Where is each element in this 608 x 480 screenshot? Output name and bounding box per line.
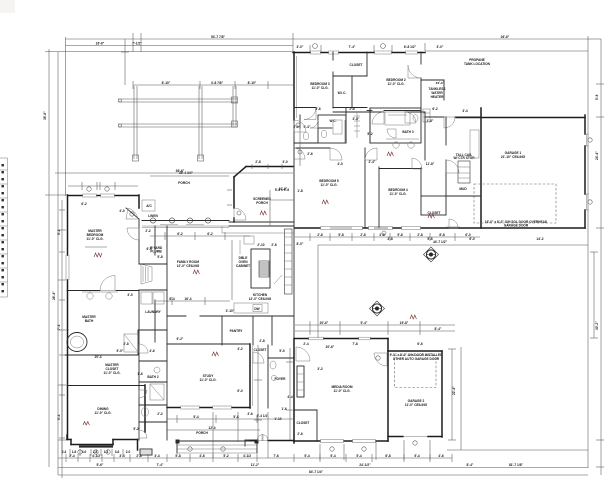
master suite NE closets: [130, 200, 167, 316]
svg-text:84'-7 1/4": 84'-7 1/4": [309, 470, 323, 474]
site boundary right: [587, 51, 589, 468]
svg-text:2'-8: 2'-8: [360, 233, 366, 237]
svg-text:4'-6: 4'-6: [438, 454, 444, 458]
dense left bottom micro dims: [62, 449, 131, 456]
dining room: [95, 407, 112, 415]
front porch steps: [176, 431, 259, 453]
svg-text:14'-2: 14'-2: [536, 237, 543, 241]
svg-text:2'-8: 2'-8: [123, 342, 129, 346]
svg-text:12'-0" CEILING: 12'-0" CEILING: [249, 297, 272, 301]
master wing north wall with windows: [68, 194, 138, 197]
trellis beam vertical west: [133, 86, 139, 161]
svg-text:5'-4": 5'-4": [361, 321, 368, 325]
svg-text:5'-2: 5'-2: [367, 132, 373, 136]
svg-text:10'-2": 10'-2": [279, 187, 288, 191]
svg-text:2'-8: 2'-8: [349, 107, 355, 111]
svg-text:3'-6: 3'-6: [247, 412, 253, 416]
svg-text:xx'-x": xx'-x": [436, 81, 445, 85]
svg-text:2'-4": 2'-4": [369, 160, 376, 164]
hall vertical dim ticks center: [286, 348, 294, 440]
svg-text:11'-0" CLG.: 11'-0" CLG.: [321, 183, 338, 187]
svg-text:6'-2: 6'-2: [207, 232, 213, 236]
svg-text:4'-0: 4'-0: [337, 162, 343, 166]
north yard vertical dim: [121, 39, 129, 85]
hall doors arcs middle band: [330, 148, 377, 160]
svg-text:16'-4: 16'-4: [184, 297, 191, 301]
svg-text:8'-10": 8'-10": [248, 81, 257, 85]
svg-text:3'-6: 3'-6: [315, 107, 321, 111]
svg-text:6'-2: 6'-2: [177, 232, 183, 236]
hall strip east of master wing: [139, 290, 167, 440]
svg-text:8'-4": 8'-4": [467, 463, 474, 467]
svg-text:4'-1/2: 4'-1/2: [243, 454, 251, 458]
svg-text:5'-0: 5'-0: [279, 349, 285, 353]
svg-text:36'-6": 36'-6": [176, 169, 185, 173]
svg-text:2'-4 1/2: 2'-4 1/2: [257, 414, 268, 418]
dimension line left inner lower: [61, 384, 63, 478]
hall door arcs left wing: [126, 208, 139, 240]
svg-text:36'-8": 36'-8": [43, 111, 47, 120]
svg-text:TANK LOCATION: TANK LOCATION: [464, 62, 491, 66]
svg-text:2'-2: 2'-2: [157, 412, 163, 416]
svg-text:7'-6: 7'-6: [273, 454, 279, 458]
svg-text:2'-4: 2'-4: [69, 454, 75, 458]
svg-text:11'-0" CEILING: 11'-0" CEILING: [405, 403, 428, 407]
bedroom 2: [367, 52, 421, 111]
svg-text:2'-10: 2'-10: [257, 243, 264, 247]
svg-text:3'-8": 3'-8": [353, 117, 360, 121]
screened porch screen ticks: [227, 160, 288, 205]
svg-text:9'-2": 9'-2": [177, 337, 184, 341]
porch area dim row: [150, 232, 250, 240]
rear wall of house long: [295, 227, 585, 235]
svg-text:BATH 2: BATH 2: [147, 375, 159, 379]
master bedroom: [85, 229, 107, 247]
dimension band south of rear wall: [295, 233, 480, 241]
bedroom 5: [296, 148, 365, 227]
svg-text:3'-4: 3'-4: [462, 109, 468, 113]
svg-text:2'-8: 2'-8: [255, 160, 261, 164]
svg-text:4'-6: 4'-6: [199, 454, 205, 458]
north wing hall arcs: [294, 112, 416, 132]
svg-text:2'-2: 2'-2: [145, 229, 151, 233]
bedroom 2 door arc: [408, 65, 421, 78]
svg-text:11'-0" CLG.: 11'-0" CLG.: [95, 411, 112, 415]
rear door arc mud hall: [446, 219, 460, 228]
powder bath center: [245, 348, 294, 446]
garage1 door swing marks: [586, 134, 592, 210]
svg-text:7'-6: 7'-6: [57, 324, 61, 330]
svg-text:PANTRY: PANTRY: [230, 329, 244, 333]
center hall walls: [142, 120, 294, 340]
svg-text:CLOSET: CLOSET: [297, 421, 310, 425]
svg-text:8'-4: 8'-4: [169, 297, 175, 301]
svg-text:BATH: BATH: [85, 319, 94, 323]
svg-text:2'-8: 2'-8: [136, 454, 142, 458]
media equipment cabinet: [297, 366, 304, 397]
stairs kitchen west: [251, 243, 277, 288]
svg-text:2-0: 2-0: [126, 450, 131, 454]
compass diamond 1: [424, 247, 439, 262]
garage1 room label: [501, 151, 526, 159]
media door arc east: [374, 353, 387, 366]
garage1 north wall: [456, 117, 585, 119]
kitchen: [249, 293, 272, 301]
svg-text:BATH 3: BATH 3: [402, 130, 414, 134]
garage 2 attic dashed: [390, 353, 444, 388]
svg-text:6'-8: 6'-8: [385, 454, 391, 458]
master suite south wall: [65, 330, 138, 355]
svg-text:7'-1/2": 7'-1/2": [132, 42, 142, 46]
svg-text:DW: DW: [254, 307, 259, 311]
svg-text:1'-6: 1'-6: [137, 372, 143, 376]
svg-text:6'-4: 6'-4: [57, 414, 61, 420]
bottom window bubbles: [78, 447, 366, 454]
svg-text:3'-0: 3'-0: [282, 160, 288, 164]
svg-text:6'-0: 6'-0: [237, 389, 243, 393]
svg-text:3'-0": 3'-0": [297, 45, 304, 49]
svg-text:5'-4: 5'-4: [193, 415, 199, 419]
dimension line left outer: [43, 49, 68, 475]
svg-text:10'-4: 10'-4: [94, 355, 101, 359]
svg-text:2'-8: 2'-8: [317, 233, 323, 237]
propane tank note: [464, 58, 491, 66]
svg-text:30'-2": 30'-2": [595, 321, 599, 330]
linen shelves: [423, 109, 430, 122]
closet between bedrooms: [333, 52, 367, 76]
media room walls: [294, 337, 388, 443]
svg-text:81'-7 1/8": 81'-7 1/8": [509, 463, 523, 467]
window squiggle marks: [83, 152, 434, 425]
window dimension ticks above north wall: [297, 44, 444, 52]
svg-text:8'-0": 8'-0": [297, 242, 304, 246]
svg-text:5'-8: 5'-8: [175, 454, 181, 458]
dining side steps: [140, 449, 152, 455]
svg-text:11'-0" CLG.: 11'-0" CLG.: [312, 86, 329, 90]
page corner tint: [0, 0, 15, 13]
svg-text:MUD: MUD: [459, 187, 467, 191]
mud hall by garage1: [446, 117, 481, 196]
garage1 attic storage dashed: [474, 184, 556, 223]
bottom left vertical dim stubs: [213, 412, 430, 460]
dimension line right of garage: [590, 252, 598, 338]
utility hall to garage: [425, 112, 481, 160]
fireplace family room: [141, 264, 152, 284]
svg-text:7'-8: 7'-8: [352, 342, 358, 346]
svg-text:2'-8: 2'-8: [417, 233, 423, 237]
double oven cabinet note: [236, 256, 250, 268]
svg-text:2'-8: 2'-8: [259, 339, 265, 343]
svg-text:4'-1/2: 4'-1/2: [92, 454, 100, 458]
bath 2 north wing: [294, 115, 346, 159]
svg-text:CLOSET: CLOSET: [254, 348, 267, 352]
dimension right of garage2: [448, 349, 456, 440]
entry foyer: [250, 345, 294, 441]
master wing dim ticks above: [55, 169, 293, 191]
svg-text:HEATER: HEATER: [431, 95, 445, 99]
svg-text:5'-8: 5'-8: [338, 233, 344, 237]
svg-text:3'-4: 3'-4: [154, 454, 160, 458]
svg-text:5'-6: 5'-6: [427, 237, 433, 241]
svg-text:3'-8: 3'-8: [387, 237, 393, 241]
pantry area walls: [167, 316, 294, 345]
svg-text:LAUNDRY: LAUNDRY: [145, 310, 161, 314]
svg-text:3'-0: 3'-0: [127, 293, 133, 297]
svg-text:21'-10" CEILING: 21'-10" CEILING: [501, 155, 526, 159]
media room south wall with windows: [294, 437, 388, 442]
trellis beam horizontal lower: [118, 124, 237, 127]
family room north windows: [160, 224, 204, 226]
dimension line bottom middle: [58, 463, 588, 468]
dimension band above media room: [295, 321, 455, 335]
dimension line right outer: [588, 39, 604, 475]
svg-text:W.I.C.: W.I.C.: [338, 91, 347, 95]
north wing exterior north wall with windows: [293, 51, 425, 54]
bedroom 3 door arc: [304, 108, 316, 120]
svg-text:5'-6": 5'-6": [97, 463, 104, 467]
svg-text:11'-2": 11'-2": [251, 463, 260, 467]
svg-text:2'-6: 2'-6: [297, 432, 303, 436]
svg-text:6'-2: 6'-2: [432, 107, 438, 111]
svg-text:PLUMB: PLUMB: [150, 250, 162, 254]
svg-text:16'-6": 16'-6": [96, 42, 105, 46]
screened porch: [229, 167, 294, 223]
svg-text:CABINET: CABINET: [236, 264, 250, 268]
svg-text:5'-4: 5'-4: [330, 454, 336, 458]
bedroom 4 door arc: [412, 158, 422, 169]
master closet: [67, 363, 145, 386]
wic north wing: [333, 76, 367, 108]
dimension line top overall: [66, 33, 589, 196]
study: [167, 344, 253, 408]
svg-text:6'-0: 6'-0: [469, 237, 475, 241]
backyard dimension line top: [318, 240, 588, 338]
site boundary bottom: [58, 470, 588, 475]
svg-text:4'-6: 4'-6: [149, 349, 155, 353]
wic with rod: [346, 108, 370, 143]
svg-text:12'-0" CEILING: 12'-0" CEILING: [177, 264, 200, 268]
svg-text:44'-7 1/2": 44'-7 1/2": [433, 240, 447, 244]
svg-text:5'-8: 5'-8: [397, 233, 403, 237]
svg-text:9'-8: 9'-8: [595, 94, 599, 100]
svg-text:19'-8": 19'-8": [400, 321, 409, 325]
interior dimension micro texts scattered: [81, 107, 543, 436]
svg-text:2'-6: 2'-6: [307, 152, 313, 156]
master bath: [67, 276, 139, 353]
svg-text:8'-8: 8'-8: [439, 233, 445, 237]
svg-text:24'-1/2": 24'-1/2": [359, 463, 371, 467]
tall cabinet utility: [453, 153, 475, 183]
kitchen counters: [222, 226, 294, 313]
svg-text:4'-0: 4'-0: [119, 209, 125, 213]
trellis beam vertical middle: [198, 86, 204, 161]
svg-text:6'-6: 6'-6: [417, 342, 423, 346]
media room door arcs: [296, 347, 310, 361]
svg-text:A/C: A/C: [146, 204, 152, 208]
tankless water heater closet: [421, 80, 445, 100]
closet under stairs: [294, 410, 317, 440]
svg-text:PORCH: PORCH: [178, 181, 190, 185]
svg-text:26'-6": 26'-6": [501, 35, 510, 39]
svg-text:5'-4: 5'-4: [414, 454, 420, 458]
svg-text:5'-8: 5'-8: [157, 255, 163, 259]
svg-text:2-4: 2-4: [62, 450, 67, 454]
svg-text:3'-0": 3'-0": [437, 45, 444, 49]
compass diamond 2: [370, 301, 385, 316]
svg-text:24'-4": 24'-4": [595, 151, 599, 160]
trellis dimension line: [133, 81, 445, 89]
svg-text:OTHER AUTO GARAGE DOOR: OTHER AUTO GARAGE DOOR: [393, 357, 440, 361]
svg-text:3'-4: 3'-4: [119, 454, 125, 458]
svg-text:6'-8 1/2": 6'-8 1/2": [404, 45, 417, 49]
svg-text:20'-6": 20'-6": [320, 321, 329, 325]
svg-text:22'-4": 22'-4": [452, 386, 456, 395]
svg-text:12'-4: 12'-4: [208, 426, 215, 430]
svg-text:5'-0": 5'-0": [117, 349, 124, 353]
master wing west wall: [66, 195, 69, 439]
site boundary top: [45, 50, 588, 53]
family room: [155, 226, 230, 342]
north wing west wall: [294, 52, 297, 120]
svg-text:3'-8: 3'-8: [379, 233, 385, 237]
backyard fence line east of garage2: [447, 347, 588, 450]
svg-text:11'-0" CLG.: 11'-0" CLG.: [388, 82, 405, 86]
misc dimension ticks along left wall: [58, 230, 66, 440]
hall south wall of north wing: [333, 111, 425, 113]
svg-text:3'-10": 3'-10": [226, 309, 235, 313]
kitchen tall cabinets east: [274, 229, 292, 294]
svg-text:11'-8": 11'-8": [426, 162, 435, 166]
hall bath fixtures: [139, 344, 164, 438]
bedroom 4: [379, 167, 421, 227]
svg-text:PORCH: PORCH: [196, 431, 208, 435]
dimension line bottom upper with ticks: [58, 454, 452, 462]
svg-text:4'-2: 4'-2: [237, 347, 243, 351]
small dim texts scattered: [117, 117, 435, 353]
bath 3 with tub and two sinks: [370, 108, 421, 148]
master bedroom east wall: [126, 195, 139, 264]
svg-text:8'-10": 8'-10": [162, 81, 171, 85]
svg-text:1'-6: 1'-6: [281, 407, 287, 411]
svg-text:2'-8": 2'-8": [427, 119, 434, 123]
svg-text:5'-4: 5'-4: [356, 454, 362, 458]
svg-text:11'-0" CLG.: 11'-0" CLG.: [334, 389, 351, 393]
svg-text:54'-7 7/8": 54'-7 7/8": [211, 35, 225, 39]
svg-text:1'-8: 1'-8: [297, 189, 303, 193]
bedroom 3: [294, 52, 333, 108]
entry hall dimension ticks vertical center: [254, 345, 262, 440]
svg-text:7'-4": 7'-4": [349, 45, 356, 49]
svg-text:20'-6": 20'-6": [326, 345, 335, 349]
dining bay window bottom: [67, 385, 145, 450]
garage1 east wall with door jambs: [585, 115, 587, 228]
trellis beam horizontal upper: [118, 99, 237, 102]
svg-text:5'-4": 5'-4": [304, 125, 311, 129]
porch lanai beam with posts: [142, 171, 229, 226]
svg-text:11'-0" CLG.: 11'-0" CLG.: [200, 378, 217, 382]
closet east of bedroom4: [421, 196, 446, 215]
svg-text:11'-0" CLG.: 11'-0" CLG.: [104, 371, 121, 375]
svg-text:28'-4": 28'-4": [52, 291, 56, 300]
svg-text:2'-6: 2'-6: [271, 243, 277, 247]
svg-text:11'-0" CLG.: 11'-0" CLG.: [390, 192, 407, 196]
svg-text:2'-0: 2'-0: [293, 125, 299, 129]
svg-text:4'-8 7/8": 4'-8 7/8": [211, 81, 224, 85]
left dim ticks column: [57, 200, 65, 455]
svg-text:9'-2: 9'-2: [57, 229, 61, 235]
garage 2: [388, 351, 442, 445]
svg-text:5'-2: 5'-2: [133, 427, 139, 431]
svg-text:2'-4: 2'-4: [303, 342, 309, 346]
study south wall with windows: [167, 406, 250, 409]
left reference table strip: [0, 158, 8, 297]
scattered interior dim ticks upper wing: [270, 120, 345, 226]
laundry washer dryer: [141, 292, 164, 314]
svg-text:5'-4: 5'-4: [304, 454, 310, 458]
garage1 west wall: [480, 108, 482, 228]
svg-text:3'-2: 3'-2: [317, 367, 323, 371]
trellis beam vertical east: [232, 86, 238, 127]
svg-text:CLOSET: CLOSET: [350, 63, 363, 67]
svg-text:PORCH: PORCH: [256, 201, 268, 205]
svg-text:LINEN: LINEN: [148, 214, 158, 218]
front porch dim rows: [167, 415, 294, 430]
svg-text:8'-4": 8'-4": [435, 327, 442, 331]
svg-text:11'-0" CLG.: 11'-0" CLG.: [87, 237, 104, 241]
svg-text:GARAGE DOOR: GARAGE DOOR: [504, 224, 529, 228]
svg-text:7'-4": 7'-4": [157, 463, 164, 467]
svg-text:6'-2: 6'-2: [81, 202, 87, 206]
svg-text:5'-2: 5'-2: [223, 454, 229, 458]
